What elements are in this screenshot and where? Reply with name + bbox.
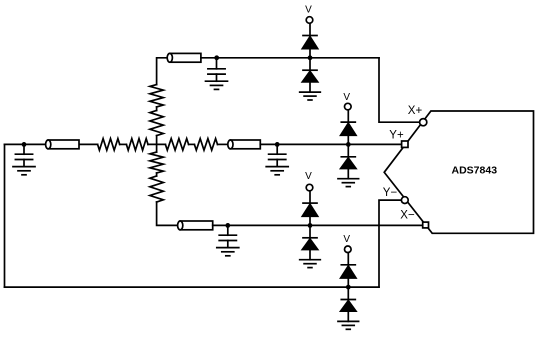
wire [309,191,311,203]
wire [309,23,311,35]
wire middle row to Y+ pin [260,143,401,145]
junction J8 [346,285,351,290]
svg-text:ADS7843: ADS7843 [452,165,498,177]
ground under D4 [338,321,359,329]
pin Y+ [402,141,408,147]
junction J4 [275,142,280,147]
svg-text:Y−: Y− [383,187,398,199]
ground under C4 [217,248,239,256]
pin X+ [420,119,427,126]
capacitor C2 [208,59,225,81]
svg-text:V: V [343,234,350,245]
junction J3 [308,55,313,60]
pin Y- [401,197,408,204]
wire [189,143,195,145]
resistor middle row 4 [194,139,217,151]
ground under C1 [13,167,35,175]
wire bottom row [5,286,380,288]
wire top row right [201,57,379,59]
capacitor C3 [269,144,286,166]
wire [218,143,228,145]
resistor middle row 2 [126,139,148,151]
ground under D3 [300,260,321,268]
ferrite bead FB4 [178,221,213,230]
wire [347,253,349,265]
op-amp U1 ADS7843 outline [384,111,533,233]
diode D3a (to V) [302,203,317,225]
ferrite bead FB3 [228,140,261,149]
wire [156,107,158,111]
resistor vertical chain 2 [150,111,163,136]
resistor vertical chain 4 [150,176,163,202]
ferrite bead FB2 [46,140,79,149]
wire middle row left [5,143,98,145]
wire riser to X+ pin [379,58,420,122]
wire third row corner [157,202,178,225]
junction J1 [22,142,27,147]
wire left vertical [4,144,6,287]
pin X- [423,222,429,228]
junction J6 [225,223,230,228]
capacitor C4 [219,225,236,247]
ground under C3 [266,167,288,175]
ground under C2 [206,81,228,89]
diode D1a (to V) [302,36,317,58]
diode D4a (to V) [341,265,356,287]
junction J2 [214,55,219,60]
svg-text:V: V [305,5,312,16]
wire [120,143,127,145]
svg-text:V: V [343,92,350,103]
svg-text:Y+: Y+ [389,129,404,141]
V supply terminal D3 [305,171,313,191]
ground under D1 [300,92,321,100]
resistor middle row 1 [98,139,120,151]
resistor vertical chain 3 [150,152,163,173]
diode D3b (to ground) [302,225,317,259]
V supply terminal D1 [305,5,313,24]
wire [156,173,158,176]
svg-text:V: V [305,171,312,182]
junction J5 [346,142,351,147]
resistor vertical chain 1 [150,85,163,107]
wire third row to X- pin [213,224,423,226]
diode D2b (to ground) [341,144,356,178]
wire top row left + corner [157,58,168,85]
wire through center node [148,143,165,145]
diode D4b (to ground) [341,287,356,321]
diode D2a (to V) [341,122,356,144]
junction J7 [308,223,313,228]
ground under D2 [338,179,359,187]
ferrite bead FB1 [167,53,201,62]
resistor middle row 3 [165,139,188,151]
V supply terminal D4 [343,234,351,253]
diode D1b (to ground) [302,58,317,92]
svg-text:X−: X− [400,210,415,222]
capacitor C1 [15,144,32,166]
V supply terminal D2 [343,92,351,110]
svg-text:X+: X+ [408,105,423,117]
wire [347,110,349,122]
wire riser to Y- pin [379,200,402,287]
wire crossing middle row [156,136,158,152]
